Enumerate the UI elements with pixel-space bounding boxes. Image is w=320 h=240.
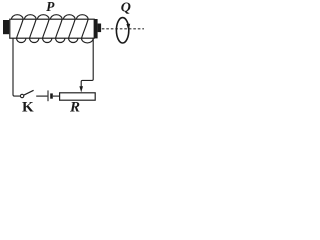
rheostat box R <box>60 93 96 100</box>
coil winding turn 3 <box>38 15 52 43</box>
coil winding turn 1 <box>12 15 26 43</box>
slider wire from coil <box>81 39 93 88</box>
right end bar <box>94 19 97 38</box>
battery-to-rheostat wire <box>53 95 60 97</box>
battery short thick plate <box>50 93 53 98</box>
coil winding turn 4 <box>51 15 65 43</box>
solenoid core rod <box>10 19 94 38</box>
right end tab <box>98 24 102 33</box>
svg-text:K: K <box>22 100 34 113</box>
slider arrowhead <box>79 86 83 92</box>
svg-text:Q: Q <box>121 0 131 15</box>
switch pivot circle <box>20 94 23 97</box>
ring arrowhead <box>126 24 130 31</box>
coil winding turn 2 <box>25 15 39 43</box>
coil winding turn 6 <box>77 15 94 43</box>
svg-text:R: R <box>69 100 80 113</box>
ring Q <box>116 18 128 43</box>
battery long plate <box>47 90 49 101</box>
switch-to-battery wire <box>36 95 47 97</box>
svg-text:P: P <box>46 0 55 14</box>
axis dashed line <box>102 28 144 30</box>
left wire <box>13 39 20 97</box>
coil winding turn 5 <box>64 15 78 43</box>
left end cap <box>3 20 9 34</box>
switch blade <box>24 90 34 95</box>
